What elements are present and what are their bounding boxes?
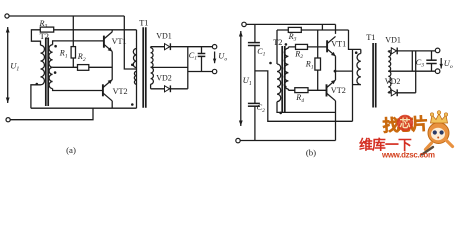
capacitor C1 (b) stem top [254, 24, 256, 42]
wire top rail drop to VT1 collector (b) [335, 24, 337, 34]
wire T1 primary left line (b) [352, 49, 354, 121]
phase dot T2 secondary mid (a) [54, 71, 57, 74]
wire tap riser (b) [411, 51, 413, 71]
voltage source U1 arrow (a) [7, 27, 9, 103]
wire output bottom (a) [188, 71, 213, 73]
phase dot T2 primary bottom (b) [279, 112, 282, 115]
transformer T1 primary winding (b) [357, 54, 361, 85]
wire top rail (a) [9, 15, 124, 17]
capacitor C2 (b) plates [248, 102, 260, 104]
transistor VT1 (a) [103, 36, 105, 48]
svg-text:芯: 芯 [400, 116, 411, 130]
wire R3 to T1 primary top (b) [349, 30, 361, 49]
wire bottom rail (b) [240, 140, 335, 142]
wire T2 secondary bottom to VT2 base (a) [53, 89, 103, 91]
wire VT1 emitter drop (b) [335, 56, 337, 71]
svg-text:T2: T2 [273, 38, 282, 47]
wire bottom terminal (a) [10, 108, 93, 120]
voltage source U1 arrow (b) [240, 31, 242, 126]
transformer T1 secondary upper winding (a) [151, 48, 153, 68]
watermark mascot crown [431, 114, 448, 124]
node: circuit (b) group [236, 22, 453, 157]
watermark mascot eyes [433, 130, 437, 134]
svg-text:(a): (a) [66, 145, 76, 155]
svg-text:(b): (b) [306, 148, 316, 158]
wire bottom rail (a) [31, 107, 137, 109]
diode VD1 (a) [165, 44, 170, 50]
wire VD1 branch (b) [388, 50, 435, 52]
transformer T1 secondary lower winding (a) [151, 67, 154, 84]
transformer T2 secondary lower winding (a) [49, 67, 53, 88]
resistor R2 (a) body [78, 65, 89, 71]
svg-text:Uo: Uo [444, 59, 453, 70]
resistor R1 (a) body [71, 47, 75, 58]
watermark mascot arm [446, 140, 453, 147]
wire R4 base drive (b) [288, 89, 326, 91]
capacitor C1 (a) plates [198, 53, 206, 55]
svg-text:C1: C1 [189, 51, 197, 62]
svg-text:VT1: VT1 [331, 39, 346, 48]
wire T1 secondary ends (b) [387, 50, 389, 53]
wire VD2 branch (a) [151, 88, 188, 90]
resistor R1 (a) bottom stem [72, 58, 74, 67]
svg-text:R1: R1 [59, 49, 68, 60]
wire VT1 collector riser (a) [111, 30, 113, 32]
diode VD1 (b) [391, 48, 396, 54]
terminal input negative (a) [6, 118, 10, 122]
wire top rail (b) [246, 23, 335, 25]
resistor R1 (a) top stem [72, 16, 74, 47]
resistor R1 (b) body [315, 58, 321, 70]
transformer T2 primary winding (a) [41, 45, 45, 85]
terminal input negative (b) [236, 138, 240, 142]
wire base drive through R2 (a) [53, 66, 113, 68]
svg-text:VD1: VD1 [385, 35, 401, 44]
wire VT2 collector drop (a) [111, 101, 113, 108]
wire VT1 emitter to VT2 emitter junction (a) [111, 51, 113, 79]
svg-text:R2: R2 [77, 52, 86, 63]
resistor R1 (b) bottom stem [317, 70, 319, 90]
wire T2 primary top riser (b) [276, 30, 278, 64]
resistor R3 (a) left lead [31, 30, 40, 45]
svg-text:R3: R3 [288, 32, 297, 43]
resistor R3 (b) body [288, 27, 301, 32]
terminal + input positive (a) [5, 14, 9, 18]
watermark mascot head [428, 123, 449, 144]
phase dot T1 primary top (b) [355, 51, 358, 54]
wire VT2 emitter riser (b) [335, 71, 337, 80]
svg-text:www.dzsc.com: www.dzsc.com [381, 151, 435, 160]
svg-text:R4: R4 [295, 93, 304, 104]
wire bridge midpoint to rail (b) [255, 71, 353, 121]
wire R3 to VT1 collector to T1 primary top (a) [54, 29, 137, 31]
wire T2 secondary top to VT1 base (a) [53, 41, 104, 45]
phase dot T2 secondary top (b) [285, 43, 288, 46]
resistor R3 (a) body [40, 27, 53, 32]
transformer T2 core (a) [45, 38, 47, 107]
wire T1 secondary center tap to output (b) [388, 70, 435, 72]
svg-text:C2: C2 [257, 103, 265, 114]
transformer T1 primary upper winding (a) [133, 49, 136, 68]
transistor VT1 (b) [326, 40, 328, 52]
capacitor C2 (b) stem mid [254, 46, 256, 103]
wire VD2 branch (b) [388, 92, 415, 94]
svg-text:VT1: VT1 [112, 37, 127, 46]
transformer T1 core (a) [142, 27, 144, 107]
svg-text:T1: T1 [366, 33, 375, 42]
transformer T2 primary winding (b) [277, 64, 281, 102]
wire midpoint to T1 primary (b) [336, 70, 353, 72]
wire T2 secondary top to R2 (b) [287, 47, 289, 48]
phase dot T2 primary top (b) [269, 62, 272, 65]
wire VD2 cathode riser (b) [415, 51, 417, 93]
svg-text:VT2: VT2 [113, 87, 128, 96]
diode VD2 (a) [165, 86, 170, 92]
capacitor C3 (b) plates [426, 59, 436, 61]
wire T2 secondary bottom (b) [287, 89, 289, 90]
wire T2 primary bottom (b) [277, 102, 336, 113]
junction dot emitters (b) [334, 70, 337, 73]
resistor R3 (b) wire [277, 29, 349, 31]
transformer T1 primary lower winding (a) [134, 71, 136, 84]
transistor VT2 (a) [102, 84, 104, 96]
svg-text:VD1: VD1 [156, 32, 172, 41]
wire center-tap feed drop (a) [124, 16, 136, 69]
phase dot T2 secondary bottom (b) [284, 86, 287, 89]
wire T1 secondary ends (a) [150, 47, 152, 48]
svg-text:C3: C3 [416, 58, 424, 69]
terminal output negative (b) [435, 69, 440, 74]
output voltage Uo arrow (a) [214, 52, 216, 64]
terminal output positive (a) [212, 45, 216, 49]
transformer T2 secondary winding (b) [284, 48, 288, 89]
phase dot T2 secondary top (a) [54, 45, 57, 48]
capacitor C3 (b) stems [431, 51, 433, 60]
capacitor C2 (b) stem bottom [254, 106, 256, 140]
transformer T2 core (b) [281, 46, 283, 113]
wire T1 primary verticals (b) [360, 49, 362, 53]
node: circuit (a) group [5, 14, 227, 155]
output voltage Uo arrow (b) [440, 58, 442, 69]
wire VD1 branch (a) [151, 46, 213, 48]
terminal output negative (a) [212, 69, 216, 73]
svg-text:U1: U1 [10, 60, 19, 72]
watermark magnifier [422, 147, 433, 155]
svg-text:Uo: Uo [218, 52, 227, 63]
phase dot T1 primary bottom (a) [131, 103, 134, 106]
svg-text:T1: T1 [139, 19, 148, 28]
transformer T2 secondary upper winding (a) [49, 45, 53, 68]
capacitor C1 (a) stems [201, 47, 203, 54]
wire R3 riser to top rail (b) [321, 24, 323, 30]
wire R2 base drive (b) [288, 46, 327, 48]
diode VD2 (b) [391, 90, 396, 96]
phase dot T2 primary bottom (a) [36, 83, 39, 86]
watermark red circle [397, 115, 413, 131]
svg-text:VD2: VD2 [156, 73, 172, 82]
wire T1 secondary center tap (a) [151, 66, 188, 68]
capacitor C1 (b) plates [248, 42, 260, 44]
wire VD2 cathode riser (a) [187, 47, 189, 89]
svg-text:VT2: VT2 [331, 86, 346, 95]
resistor R2 (b) body [296, 44, 308, 49]
svg-text:C1: C1 [257, 47, 265, 58]
svg-text:R1: R1 [305, 60, 314, 71]
wire T2 primary bottom to left rail (a) [31, 85, 41, 108]
resistor R1 (b) top stem [317, 30, 319, 58]
transformer T1 secondary lower winding (b) [388, 71, 391, 92]
transistor VT2 (b) [326, 84, 328, 96]
transformer T1 core (b) [372, 43, 374, 108]
terminal output positive (b) [435, 48, 440, 53]
resistor R4 (b) body [295, 88, 308, 93]
node: watermark group [359, 111, 453, 160]
watermark mascot face [431, 128, 445, 140]
terminal input positive (b) [242, 22, 246, 26]
phase dot T1 primary mid (a) [131, 64, 134, 67]
transformer T1 primary line (a) [136, 30, 138, 108]
svg-text:R2: R2 [294, 49, 303, 60]
svg-text:U1: U1 [243, 75, 252, 87]
wire VT2 collector drop (b) [335, 101, 337, 141]
svg-text:VD2: VD2 [385, 77, 401, 86]
transformer T1 secondary upper winding (b) [388, 52, 390, 71]
